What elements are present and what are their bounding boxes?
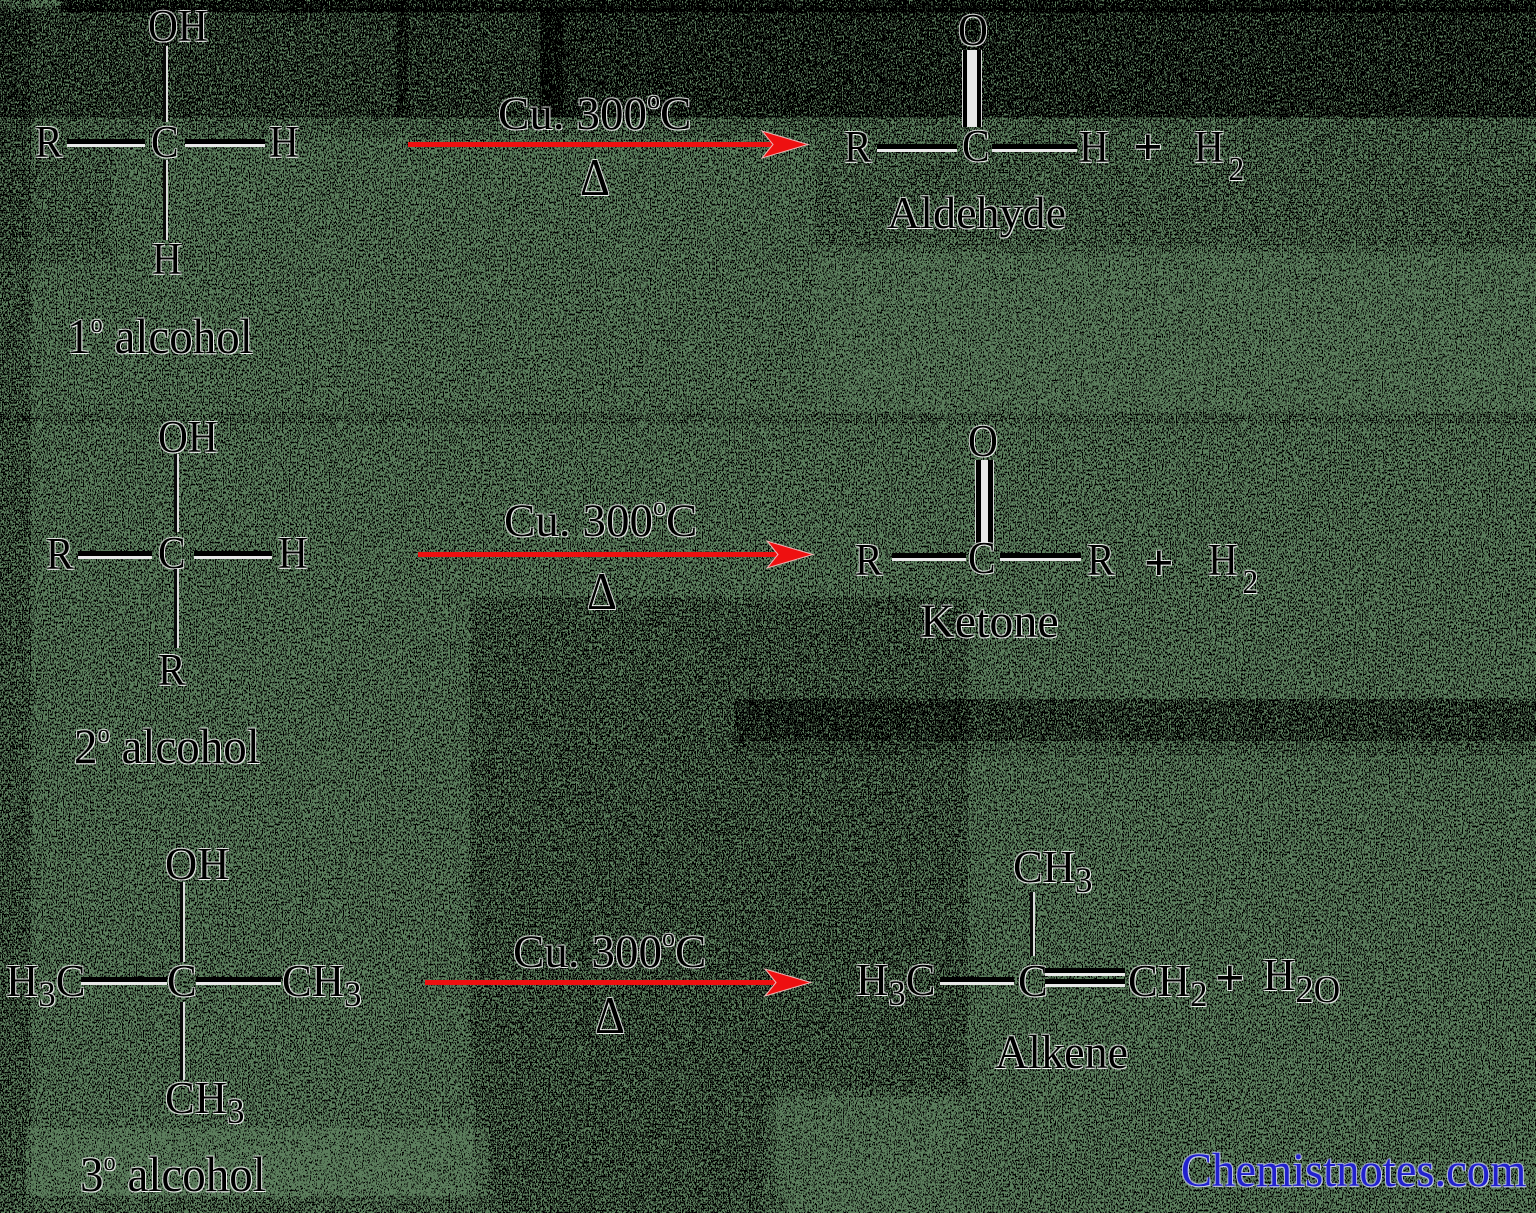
R label row1 product bbox=[844, 125, 872, 170]
left edge column bbox=[0, 0, 30, 1213]
H2 row2 bbox=[1208, 538, 1258, 600]
double bond C=O row2 bbox=[975, 460, 994, 543]
Aldehyde label bbox=[887, 190, 1066, 236]
Chemistnotes.com watermark bbox=[1181, 1147, 1526, 1195]
H2O row3 bbox=[1263, 952, 1340, 1009]
upper right secondary band bbox=[830, 115, 1536, 250]
band above 2-alcohol right bbox=[750, 700, 1536, 740]
bond C-CH3 row3 product bbox=[1030, 892, 1033, 956]
bond C-H row1 product bbox=[992, 144, 1077, 152]
double bond C=CH2 row3 bbox=[1045, 968, 1125, 976]
bond R-C row1 bbox=[67, 139, 145, 147]
arrow row1 bbox=[405, 128, 817, 161]
bond C-OH row2 bbox=[174, 454, 177, 532]
OH label row3 bbox=[165, 841, 229, 887]
H label row2 bbox=[278, 531, 308, 576]
bond C-CH3 down row3 bbox=[180, 1002, 183, 1080]
light patch bottom right-center bbox=[770, 1090, 960, 1213]
plus row2 bbox=[1144, 538, 1174, 590]
OH label row1 reactant bbox=[148, 4, 208, 49]
H label row1 product bbox=[1079, 125, 1109, 170]
very top strip bbox=[90, 0, 1536, 12]
bond C-R down row2 bbox=[174, 569, 177, 648]
arrow row3 bbox=[422, 966, 834, 999]
label 1 alcohol bbox=[67, 311, 253, 361]
streak y415 bbox=[0, 413, 1536, 423]
bottom center dark bbox=[480, 1085, 770, 1213]
OH label row2 bbox=[158, 415, 218, 460]
double bond C=O row1 bbox=[962, 50, 982, 127]
C label row3 product bbox=[1018, 958, 1048, 1004]
CH2 label row3 product bbox=[1128, 958, 1207, 1012]
plus row1 bbox=[1133, 122, 1163, 174]
bond C-OH row1 bbox=[163, 46, 166, 122]
label 3 alcohol bbox=[80, 1149, 266, 1199]
CH3 label row3 right bbox=[282, 958, 361, 1012]
bond C-H row2 bbox=[194, 551, 272, 559]
plus row3 bbox=[1215, 953, 1245, 1005]
C label row3 bbox=[167, 958, 197, 1004]
bottom edge strip bbox=[0, 1197, 770, 1213]
C label row2 bbox=[158, 531, 186, 576]
bond R-C row1 product bbox=[877, 144, 957, 152]
dense patch top-left bbox=[30, 50, 230, 110]
delta row1 bbox=[580, 152, 610, 205]
R label row1 bbox=[35, 120, 63, 165]
catalyst text row3 bbox=[513, 925, 706, 976]
patch below R row1 bbox=[0, 140, 110, 260]
catalyst text row2 bbox=[504, 494, 697, 545]
delta row3 bbox=[595, 990, 625, 1043]
C label row1 bbox=[151, 120, 179, 165]
top band fade lower edge bbox=[0, 115, 830, 137]
top dark band left bbox=[0, 10, 400, 115]
bond R-C row2 product bbox=[892, 553, 966, 561]
light patch bottom-left bbox=[35, 1130, 480, 1213]
bond C-H down row1 bbox=[163, 160, 166, 240]
C label row1 product bbox=[962, 124, 990, 169]
bond H3C-C row3 product bbox=[940, 977, 1014, 985]
R label row2 product left bbox=[855, 538, 883, 583]
H3C label row3 product bbox=[856, 957, 935, 1011]
light band upper right bbox=[830, 250, 1536, 410]
H3C label row3 left bbox=[6, 958, 85, 1012]
H2 row1 bbox=[1194, 125, 1244, 187]
label 2 alcohol bbox=[74, 721, 260, 771]
H label row1 bottom bbox=[152, 237, 182, 282]
bond C-H row1 bbox=[185, 139, 265, 147]
Ketone label bbox=[920, 598, 1059, 646]
Alkene label bbox=[995, 1029, 1128, 1077]
bond C-CH3 row3 bbox=[196, 977, 281, 985]
band fade bbox=[750, 740, 1536, 755]
H label row1 right bbox=[269, 120, 299, 165]
CH3 label row3 bottom bbox=[165, 1075, 244, 1129]
CH3 label row3 product top bbox=[1013, 844, 1092, 898]
center column mid-bottom bbox=[480, 607, 958, 1087]
C label row2 product bbox=[968, 536, 996, 581]
bond R-C row2 bbox=[78, 551, 152, 559]
arrow row2 bbox=[415, 538, 827, 571]
R label row2 left bbox=[46, 532, 74, 577]
catalyst text row1 bbox=[498, 87, 691, 138]
bond C-R row2 product bbox=[1000, 553, 1081, 561]
top dark band right bbox=[560, 10, 1536, 115]
R label row2 product right bbox=[1087, 538, 1115, 583]
bond C-OH row3 bbox=[180, 882, 183, 962]
R label row2 bottom bbox=[158, 648, 186, 693]
delta row2 bbox=[587, 566, 617, 619]
O label row1 product bbox=[958, 8, 988, 53]
bond H3C-C row3 bbox=[81, 977, 167, 985]
O label row2 product bbox=[968, 419, 998, 464]
top dark band mid bbox=[400, 10, 560, 115]
